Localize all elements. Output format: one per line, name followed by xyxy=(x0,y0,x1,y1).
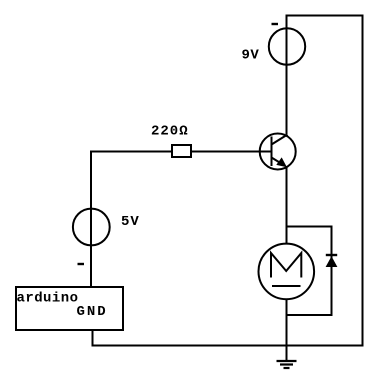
diode D1 flyback xyxy=(326,255,338,267)
arduino module box xyxy=(16,287,123,330)
motor M1 xyxy=(259,244,315,300)
wire right vertical xyxy=(362,15,364,347)
minus sign of 5V xyxy=(78,263,85,265)
minus sign of 9V xyxy=(272,23,279,25)
resistor R1 220 xyxy=(172,145,191,157)
ground xyxy=(277,361,297,368)
transistor Q1 xyxy=(260,134,296,170)
wire diode vertical xyxy=(331,226,333,317)
svg-text:9V: 9V xyxy=(242,48,260,64)
wire motor bottom to ground xyxy=(286,299,288,361)
svg-text:5V: 5V xyxy=(121,214,140,230)
wire bottom horizontal xyxy=(92,345,364,347)
wire collector-emitter vertical to motor xyxy=(286,166,288,244)
wire base horizontal xyxy=(91,151,272,153)
node junction motor top / diode branch xyxy=(287,226,332,228)
wire left vertical xyxy=(90,151,92,289)
battery V1 5V xyxy=(73,209,110,246)
svg-text:arduino: arduino xyxy=(17,291,79,307)
svg-text:220Ω: 220Ω xyxy=(151,123,189,139)
battery V2 9V xyxy=(269,28,305,64)
wire diode bottom horizontal xyxy=(287,314,333,316)
svg-text:GND: GND xyxy=(77,304,108,320)
wire arduino GND down xyxy=(92,330,94,347)
wire top horizontal xyxy=(287,15,363,17)
wire 9V branch vertical xyxy=(286,15,288,135)
